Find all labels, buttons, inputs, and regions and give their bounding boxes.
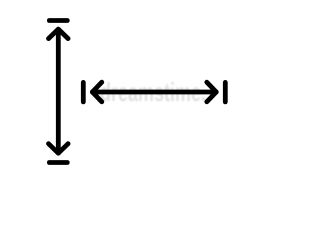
horizontal arrow right arrowhead bbox=[207, 82, 217, 102]
vertical arrow top arrowhead bbox=[49, 29, 69, 38]
horizontal arrow left bar bbox=[81, 82, 86, 102]
vertical arrow top bar bbox=[49, 18, 67, 23]
horizontal arrow right bar bbox=[223, 82, 228, 102]
vertical arrow shaft wire bbox=[56, 29, 61, 153]
horizontal arrow shaft wire bbox=[93, 90, 217, 95]
watermark text dreamstime bbox=[100, 78, 206, 107]
horizontal arrow left arrowhead bbox=[92, 82, 102, 102]
vertical arrow bottom arrowhead bbox=[49, 144, 69, 154]
vertical arrow bottom bar bbox=[49, 160, 67, 165]
